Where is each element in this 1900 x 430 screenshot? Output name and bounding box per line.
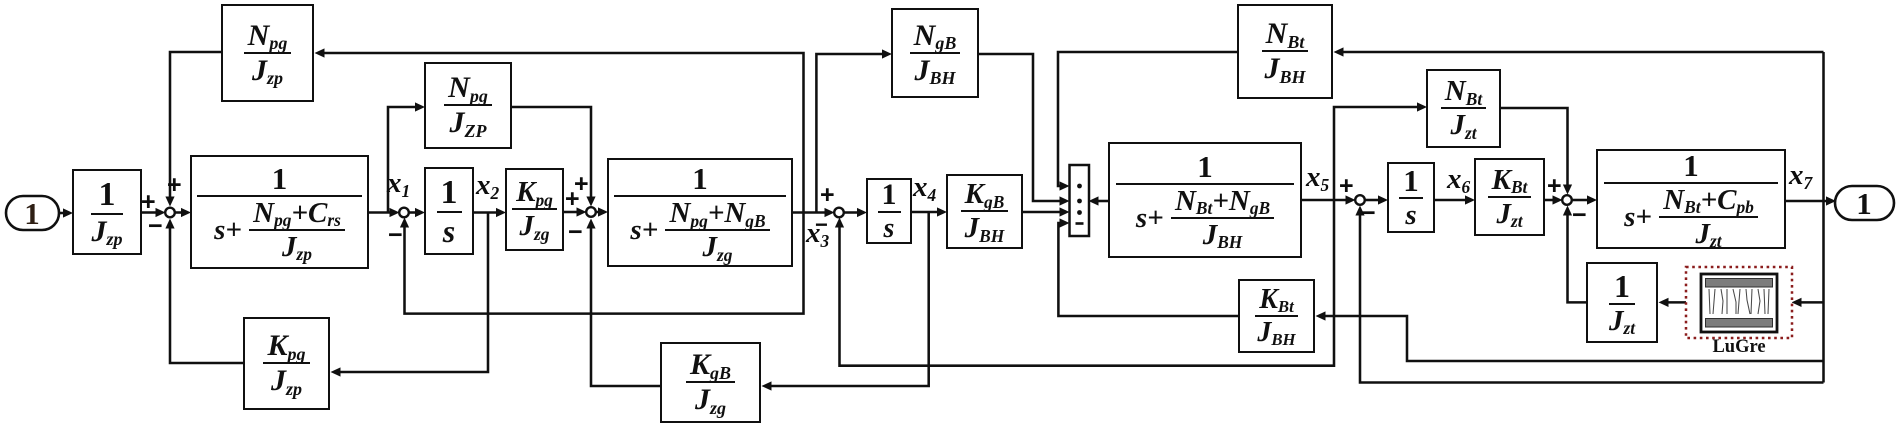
- block 1/Jzp gain: [72, 169, 142, 255]
- block transfer function 1/(s+(NBt+NgB)/JBH): [1108, 142, 1302, 258]
- wire x5 branch up to NBt/Jzt input: [1334, 102, 1427, 200]
- block Kpg/Jzg gain: [505, 168, 564, 251]
- wire x7 feedback to sum J5 lower input: [1355, 206, 1823, 383]
- wire LuGre output to 1/Jzt: [1659, 298, 1687, 307]
- wire NgB/JBH output to sum-block input 2: [979, 54, 1070, 206]
- wire x4 integrator 2 to KgB/JBH: [912, 207, 947, 216]
- wire feedback NBt/JBH output to sum-block input 1: [1058, 52, 1237, 191]
- block KBt/JBH bottom feedback gain: [1238, 279, 1315, 353]
- wire KBt/JBH output to sum-block input 4: [1058, 218, 1238, 316]
- label x1: [387, 169, 410, 198]
- label x5: [1306, 163, 1329, 192]
- wire x4 branch down to KgB/Jzg input: [762, 212, 929, 391]
- block Kpg/Jzp bottom-left feedback gain: [243, 317, 330, 410]
- label x6: [1447, 165, 1470, 194]
- block Npg/Jzp top-left feedback gain: [221, 4, 314, 102]
- block transfer function 1/(s+(NBt+Cpb)/Jzt): [1596, 149, 1786, 249]
- wire KBt/Jzt to sum J6: [1545, 195, 1563, 204]
- wire input oval to 1/Jzp: [59, 208, 73, 217]
- wire x7 feedback to KBt/JBH input: [1316, 311, 1824, 361]
- sum junction J6: [1562, 195, 1572, 205]
- wire KgB/Jzg output up to sum J3 lower input: [586, 219, 660, 387]
- sign plus J4 left: [820, 183, 835, 208]
- output port oval 1: [1835, 186, 1894, 221]
- wire x3 branch up to NgB/JBH input: [816, 49, 892, 212]
- block KBt/Jzt gain: [1474, 158, 1545, 236]
- sign minus J6 bottom: [1572, 203, 1587, 228]
- input port oval 1: [6, 196, 59, 231]
- sign minus J3 bottom: [568, 220, 583, 245]
- wire 1/Jzt output to sum J6 lower input: [1563, 206, 1586, 303]
- block KgB/JBH gain: [946, 174, 1023, 249]
- label x7: [1789, 161, 1812, 190]
- wire sum J6 to block Gt: [1572, 195, 1598, 204]
- wire x7 to LuGre input: [1792, 298, 1824, 307]
- wire x2 integrator 1 to Kpg/Jzg: [474, 208, 506, 217]
- sign plus J5 left: [1339, 174, 1354, 199]
- wire sum J5 to integrator 3: [1365, 195, 1389, 204]
- block integrator 1/s second: [866, 178, 912, 244]
- wire sum J1 to block GpL: [175, 208, 192, 217]
- wire Npg/JZP output down to sum J3 upper input: [512, 107, 596, 207]
- sign plus J1 left: [141, 190, 156, 215]
- sign plus J1 top: [167, 173, 182, 198]
- wire KgB/JBH to sum-block input 3: [1023, 207, 1070, 216]
- sign plus J3 top: [574, 172, 589, 197]
- sum block rectangular with signs: [1070, 165, 1090, 236]
- label x4: [913, 173, 936, 202]
- block KgB/Jzg bottom feedback gain: [660, 342, 761, 423]
- sign plus J3 left: [565, 187, 580, 212]
- label x2: [476, 171, 499, 200]
- sign plus J6 left: [1547, 174, 1562, 199]
- block integrator 1/s first: [424, 167, 474, 255]
- wire NBt/Jzt output down to sum J6 upper input: [1501, 108, 1572, 195]
- label x3: [806, 219, 829, 248]
- wire sum-block right port to block GBH: [1089, 196, 1109, 205]
- sign minus J2 bottom: [388, 223, 403, 248]
- block NBt/JBH top-right feedback gain: [1237, 4, 1333, 99]
- wire x3 branch down feedback to sum J2 lower input: [400, 213, 804, 314]
- wire Gt output x7 to output oval: [1786, 196, 1836, 205]
- sum junction J3: [586, 207, 596, 217]
- sign minus J1 bottom: [148, 214, 163, 239]
- wire x6 integrator 3 to KBt/Jzt: [1435, 195, 1475, 204]
- svg-text:LuGre: LuGre: [1712, 337, 1765, 357]
- block 1/Jzt gain: [1586, 262, 1658, 343]
- wire x7 feedback to NBt/JBH top block: [1334, 47, 1824, 56]
- block NBt/Jzt feedback gain: [1426, 69, 1501, 148]
- wire Kpg/Jzg to sum J3: [564, 207, 587, 216]
- sum junction J1: [165, 208, 175, 218]
- wire 1/Jzp to sum J1: [142, 208, 166, 217]
- svg-text:1: 1: [24, 196, 40, 231]
- block transfer function 1/(s+(Npg+Crs)/Jzp): [190, 155, 369, 269]
- wire sum J3 to block GgM: [596, 207, 609, 216]
- wire x5 branch down feedback to sum J4 lower input: [835, 200, 1334, 366]
- wire x3 branch up to Npg/Jzp top-left block input: [315, 48, 804, 212]
- wire Kpg/Jzp output up to sum J1 lower input: [165, 219, 243, 364]
- block NgB/JBH top feedback gain: [891, 8, 979, 98]
- wire GBH output x5 to sum J5: [1302, 195, 1356, 204]
- block transfer function 1/(s+(Npg+NgB)/Jzg): [607, 158, 793, 267]
- wire x7 branch vertical trunk: [1822, 52, 1825, 383]
- wire sum J4 to integrator 2: [844, 208, 868, 217]
- label x3 minus bar: [815, 214, 828, 236]
- sign minus J5 bottom: [1361, 201, 1376, 226]
- LuGre block with red dashed border: [1686, 267, 1792, 357]
- sum junction J4: [834, 208, 844, 218]
- sum junction J5: [1355, 195, 1365, 205]
- wire GpL output x1 to sum J2: [369, 208, 400, 217]
- svg-text:1: 1: [1856, 186, 1872, 221]
- sum junction J2: [399, 208, 409, 218]
- block Npg/JZP feedback gain: [424, 62, 512, 149]
- wire sum J2 to integrator 1: [409, 208, 426, 217]
- wire x2 branch down to Kpg/Jzp input: [331, 213, 489, 377]
- wire GgM output x3 to sum J4: [793, 208, 835, 217]
- wire Npg/Jzp top-left output down to sum J1 upper input: [165, 52, 221, 207]
- block integrator 1/s third: [1387, 162, 1435, 233]
- wire x1 branch up to Npg/JZP input: [388, 102, 425, 212]
